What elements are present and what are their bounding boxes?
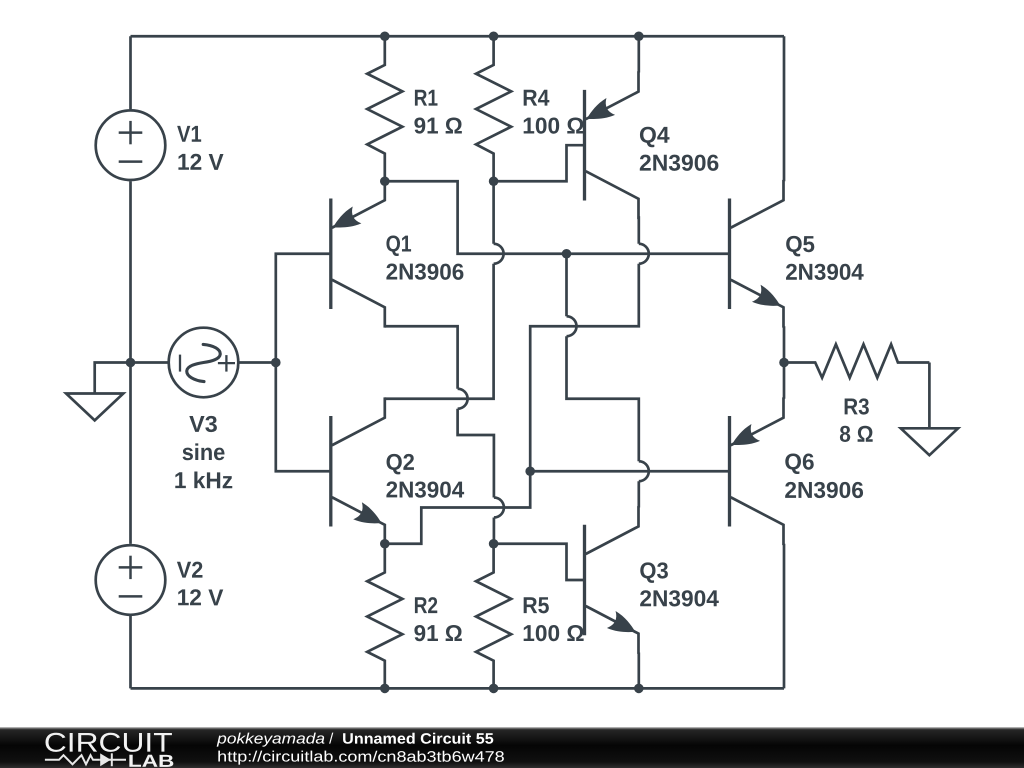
- node top rail R1: [380, 31, 390, 41]
- svg-text:http://circuitlab.com/cn8ab3tb: http://circuitlab.com/cn8ab3tb6w478: [217, 749, 505, 766]
- hop node wire over Q4-collector horizontal: [567, 316, 577, 336]
- svg-text:2N3904: 2N3904: [639, 585, 719, 611]
- svg-text:91 Ω: 91 Ω: [414, 112, 463, 138]
- svg-text:12 V: 12 V: [177, 149, 224, 175]
- wire left rail upper (V1 to top rail): [129, 36, 132, 109]
- svg-text:2N3906: 2N3906: [784, 477, 864, 503]
- transistor Q2: [329, 416, 332, 527]
- svg-text:Q1: Q1: [386, 231, 412, 257]
- wire Q4 collector to Q6 base junction: [530, 264, 639, 472]
- svg-text:Q2: Q2: [386, 449, 415, 475]
- wire V1 minus to junction: [129, 181, 132, 362]
- node Q6 base junction: [525, 466, 535, 476]
- wire V2 minus to bottom rail: [129, 615, 132, 689]
- svg-text:R3: R3: [843, 393, 869, 419]
- footer bar: [0, 727, 1024, 768]
- node junction V1-V2-V3-ground: [126, 358, 136, 368]
- node main horizontal tap: [562, 249, 572, 259]
- ground symbol right: [901, 428, 958, 455]
- hop R4-Q2 wire over Q5 base wire: [494, 244, 504, 264]
- wire V3 to Q1 base: [276, 254, 331, 363]
- svg-text:2N3904: 2N3904: [785, 259, 864, 285]
- svg-text:2N3906: 2N3906: [386, 259, 465, 285]
- node R5 bottom rail: [489, 684, 499, 694]
- wire R3 node to Q6 emitter: [783, 363, 786, 399]
- node top rail R4: [489, 31, 499, 41]
- svg-text:pokkeyamada / Unnamed Circuit: pokkeyamada / Unnamed Circuit 55: [216, 730, 494, 747]
- node V3 plus junction: [271, 358, 281, 368]
- wire Q1 emitter to R1 node, east jog to main node / Q5 base: [385, 181, 730, 254]
- svg-text:12 V: 12 V: [177, 584, 224, 610]
- wire Q3 emitter to bottom rail: [637, 653, 640, 689]
- wire Q1 collector jog to R5/Q3-base node: [385, 326, 458, 389]
- transistor Q3: [583, 525, 586, 636]
- node R3 / Q5 / Q6 junction: [779, 358, 789, 368]
- CircuitLab logo resistor-diode glyph: [45, 753, 126, 766]
- wire R3 to ground right: [928, 363, 931, 429]
- transistor Q4: [583, 90, 586, 201]
- wire Q1 collector to node: [493, 518, 496, 544]
- wire bottom rail: [131, 687, 785, 690]
- svg-text:100 Ω: 100 Ω: [522, 112, 584, 138]
- voltage source V2: [96, 545, 166, 615]
- svg-text:2N3904: 2N3904: [386, 476, 465, 502]
- wire Q3 base to R5 node: [494, 544, 585, 580]
- wire main node south to Q3 collector: [565, 254, 568, 317]
- svg-text:Q5: Q5: [785, 231, 815, 257]
- wire Q4 collector down: [637, 216, 640, 244]
- svg-text:R1: R1: [414, 85, 439, 111]
- wire V3 minus lead: [131, 361, 169, 364]
- wire R4 node down toward Q2 collector: [492, 181, 495, 244]
- svg-text:V3: V3: [189, 411, 218, 437]
- wire Q3 collector lead: [637, 481, 640, 507]
- voltage source V1: [96, 110, 166, 180]
- svg-text:R5: R5: [522, 592, 549, 618]
- wire Q1 collector continues: [458, 409, 494, 498]
- wire V3 plus lead: [238, 361, 275, 364]
- svg-text:100 Ω: 100 Ω: [522, 620, 584, 646]
- transistor Q5: [728, 198, 731, 309]
- svg-text:2N3906: 2N3906: [639, 150, 719, 176]
- svg-text:Q6: Q6: [784, 448, 814, 474]
- svg-text:R2: R2: [414, 592, 439, 618]
- wire continues to Q3 collector: [567, 336, 639, 461]
- wire Q5 emitter to R3 node: [783, 326, 786, 362]
- wire top rail: [131, 35, 785, 38]
- resistor R5: [476, 544, 511, 689]
- hop Q3 collector wire over Q6 base wire: [639, 461, 649, 481]
- node top rail Q4 emitter: [634, 31, 644, 41]
- svg-text:sine: sine: [182, 439, 226, 465]
- wire V3 to Q2 base: [276, 363, 331, 472]
- svg-text:1 kHz: 1 kHz: [174, 467, 233, 493]
- node R1 bottom / Q1 emitter: [380, 176, 390, 186]
- wire junction to V2 plus: [129, 363, 132, 544]
- wire ground stem left: [95, 363, 131, 394]
- transistor Q6: [728, 416, 731, 527]
- wire Q6 base junction east to Q6: [530, 470, 729, 473]
- transistor Q1: [329, 198, 332, 309]
- resistor R3: [784, 344, 929, 377]
- node R2 bottom rail: [380, 684, 390, 694]
- wire Q2 emitter jog east: [385, 471, 530, 544]
- resistor R1: [367, 36, 402, 181]
- svg-text:Q3: Q3: [639, 557, 668, 583]
- wire R4-Q2 wire continues to Q2 collector: [385, 264, 494, 399]
- node Q3 emitter bottom rail: [634, 684, 644, 694]
- hop Q4 collector wire over Q5 base wire: [639, 244, 649, 264]
- svg-text:8 Ω: 8 Ω: [839, 421, 873, 447]
- resistor R2: [367, 544, 402, 689]
- node R5 top / Q3 base / Q1 collector: [489, 539, 499, 549]
- node Q2 emitter / R2 top: [380, 539, 390, 549]
- svg-text:91 Ω: 91 Ω: [414, 620, 463, 646]
- node R4 bottom / Q4 base net: [489, 176, 499, 186]
- svg-text:LAB: LAB: [128, 751, 175, 768]
- svg-text:V1: V1: [177, 121, 202, 147]
- hop Q1 collector wire over R4-Q2 wire: [458, 389, 468, 409]
- wire Q4 emitter to top rail: [637, 36, 640, 72]
- svg-text:Q4: Q4: [639, 122, 670, 148]
- resistor R4: [476, 36, 511, 181]
- svg-text:R4: R4: [522, 85, 549, 111]
- wire top rail corner to Q5 collector: [783, 36, 786, 181]
- hop Q1 collector wire over Q2 emitter jog wire: [494, 498, 504, 518]
- sine source V3: [169, 328, 239, 398]
- wire R4 node to Q4 base: [494, 145, 585, 181]
- ground symbol left: [66, 394, 123, 421]
- svg-text:V2: V2: [177, 557, 204, 583]
- wire Q6 collector to bottom rail: [783, 544, 786, 689]
